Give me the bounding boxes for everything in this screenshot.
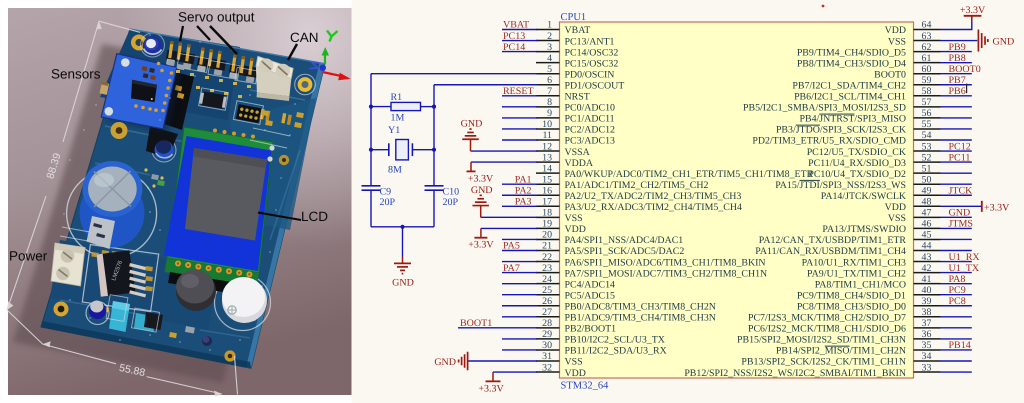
svg-text:PA7/SPI1_MOSI/ADC7/TIM3_CH2/TI: PA7/SPI1_MOSI/ADC7/TIM3_CH2/TIM8_CH1N [565,268,768,279]
svg-text:Servo output: Servo output [178,10,255,25]
wire net PB14 pin 35 [941,349,972,351]
pin 1 VBAT (left) [536,20,590,37]
pin 43 PA10 (right) [802,252,941,269]
svg-text:15: 15 [542,174,552,185]
svg-text:PC10/U4_TX/SDIO_D2: PC10/U4_TX/SDIO_D2 [808,169,906,180]
wire net PB8 pin 61 [941,62,972,64]
svg-text:43: 43 [922,252,932,263]
svg-text:GND: GND [461,118,483,129]
svg-text:18: 18 [542,208,552,219]
svg-text:PA4/SPI1_NSS/ADC4/DAC1: PA4/SPI1_NSS/ADC4/DAC1 [565,235,684,246]
svg-text:VDD: VDD [565,368,586,379]
wire stub pin 50 [941,183,972,185]
wire stub pin 56 [941,117,972,119]
svg-text:PC1/ADC11: PC1/ADC11 [565,114,615,125]
wire stub pin 57 [941,106,972,108]
svg-text:PA14/JTCK/SWCLK: PA14/JTCK/SWCLK [821,191,907,202]
svg-text:PA13/JTMS/SWDIO: PA13/JTMS/SWDIO [822,224,906,235]
svg-text:NRST: NRST [565,92,590,103]
svg-text:R1: R1 [391,92,403,103]
svg-text:PA3: PA3 [515,197,532,208]
pin 30 PB11 (left) [536,340,667,357]
svg-text:58: 58 [922,86,932,97]
pin 23 PA7 (left) [536,263,767,280]
svg-text:GND: GND [949,208,971,219]
wire pin 63 to GND [941,40,978,42]
pin 34 PB13 (right) [741,351,940,368]
junction dots [369,105,436,229]
svg-text:48: 48 [922,197,932,208]
wire XTAL1 lower segment [370,190,372,227]
schematic background [352,0,1024,403]
wire stub pin 29 [502,338,538,340]
power +3.3V symbol at pin 64 VDD [960,5,986,22]
power +3.3V symbol at pin 48 VDD [982,201,1010,214]
svg-text:62: 62 [922,42,932,53]
wire stub pin 27 [502,316,538,318]
svg-text:PB2/BOOT1: PB2/BOOT1 [565,324,617,335]
svg-text:64: 64 [922,20,932,31]
pin 59 PB7 (right) [792,75,940,92]
pin 27 PB1 (left) [536,307,716,324]
svg-text:PC4/ADC14: PC4/ADC14 [565,279,616,290]
svg-text:CPU1: CPU1 [561,12,587,23]
svg-text:40: 40 [922,285,932,296]
svg-text:20: 20 [542,230,552,241]
svg-text:PB6: PB6 [949,86,966,97]
pin 45 PA12 (right) [759,230,941,247]
svg-text:47: 47 [922,208,932,219]
pin 58 PB6 (right) [794,86,940,103]
svg-text:PA8: PA8 [949,274,966,285]
resistor R1 [371,92,434,123]
svg-text:34: 34 [922,351,932,362]
wire net PA7 pin 23 [502,272,538,274]
svg-text:39: 39 [922,296,932,307]
svg-text:VSS: VSS [888,36,906,47]
svg-text:8M: 8M [388,164,402,175]
svg-text:PC12/U5_TX/SDIO_CK: PC12/U5_TX/SDIO_CK [807,147,907,158]
svg-text:PB7/I2C1_SDA/TIM4_CH2: PB7/I2C1_SDA/TIM4_CH2 [792,80,906,91]
svg-text:PA5: PA5 [503,241,520,252]
svg-text:+3.3V: +3.3V [468,173,494,184]
pin 28 PB2 (left) [536,318,616,335]
wire net PC14 pin 3 [502,51,538,53]
svg-text:45: 45 [922,230,932,241]
pin 29 PB10 (left) [536,329,665,346]
wire XTAL2 lower segment [433,190,435,227]
svg-text:PA7: PA7 [503,263,520,274]
svg-text:Power: Power [9,249,48,264]
pin 51 PC10 (right) [808,163,940,180]
svg-text:+3.3V: +3.3V [984,203,1010,214]
wire XTAL2 right vertical [433,85,435,186]
wire net RESET pin 7 [502,95,538,97]
svg-text:PB5/I2C1_SMBA/SPI3_MOSI/I2S3_S: PB5/I2C1_SMBA/SPI3_MOSI/I2S3_SD [743,103,906,114]
pin 22 PA6 (left) [536,252,766,269]
svg-text:Y1: Y1 [388,125,400,136]
capacitor C10 [425,186,460,208]
wire net PC11 pin 52 [941,161,972,163]
svg-text:9: 9 [547,108,552,119]
svg-text:20P: 20P [380,197,396,208]
svg-text:PB10/I2C2_SCL/U3_TX: PB10/I2C2_SCL/U3_TX [565,335,665,346]
svg-text:25: 25 [542,285,552,296]
svg-text:BOOT0: BOOT0 [949,64,981,75]
pin 11 PC3 (left) [536,130,615,147]
svg-text:VSS: VSS [888,213,906,224]
wire pin 13 to +3.3V [471,161,538,163]
svg-text:3: 3 [547,42,552,53]
svg-text:LCD: LCD [301,209,328,224]
pin 50 PA15 (right) [775,174,940,191]
svg-text:26: 26 [542,296,552,307]
pin 38 PC7 (right) [748,307,941,324]
wire stub pin 8 [502,106,538,108]
pin 5 PD0 (left) [536,64,614,81]
pin 18 VSS (left) [536,208,583,225]
svg-text:PB14: PB14 [949,340,971,351]
svg-text:16: 16 [542,185,552,196]
power +3.3V symbol at pin 19 VDD [468,228,494,250]
svg-text:32: 32 [542,362,552,373]
svg-text:44: 44 [922,241,932,252]
pin 13 VDDA (left) [536,152,594,169]
wire stub pin 22 [502,261,538,263]
pin 25 PC5 (left) [536,285,615,302]
wire stub pin 51 [941,172,972,174]
text cursor artifact [966,84,967,94]
svg-text:5: 5 [547,64,552,75]
svg-text:38: 38 [922,307,932,318]
pin 36 PB15 (right) [737,329,941,346]
pin 37 PC6 (right) [748,318,941,335]
svg-text:37: 37 [922,318,932,329]
wire stub pin 36 [941,338,972,340]
svg-text:PC8: PC8 [949,296,966,307]
svg-text:4: 4 [547,53,552,64]
svg-text:PC15/OSC32: PC15/OSC32 [565,58,619,69]
pin 33 PB12 (right) [684,362,940,379]
svg-text:PB15/SPI2_MOSI/I2S2_SD/TIM1_CH: PB15/SPI2_MOSI/I2S2_SD/TIM1_CH3N [737,335,906,346]
svg-text:Sensors: Sensors [51,67,101,82]
crystal Y1 [371,125,434,175]
svg-text:PC3/ADC13: PC3/ADC13 [565,136,616,147]
svg-text:PA6/SPI1_MISO/ADC6/TIM3_CH1/TI: PA6/SPI1_MISO/ADC6/TIM3_CH1/TIM8_BKIN [565,257,766,268]
svg-text:PA2/U2_TX/ADC2/TIM2_CH3/TIM5_C: PA2/U2_TX/ADC2/TIM2_CH3/TIM5_CH3 [565,191,742,202]
svg-text:27: 27 [542,307,552,318]
svg-text:PD1/OSCOUT: PD1/OSCOUT [565,80,625,91]
wire stub pin 55 [941,128,972,130]
svg-text:11: 11 [542,130,552,141]
stray red dot [822,5,825,8]
svg-text:VBAT: VBAT [565,25,591,36]
svg-text:2: 2 [547,31,552,42]
wire stub pin 54 [941,139,972,141]
pin 9 PC1 (left) [536,108,615,125]
pin 2 PC13 (left) [536,31,614,48]
svg-text:VSS: VSS [565,357,583,368]
svg-text:PA3/U2_RX/ADC3/TIM2_CH4/TIM5_C: PA3/U2_RX/ADC3/TIM2_CH4/TIM5_CH4 [565,202,742,213]
pin 3 PC14 (left) [536,42,618,59]
svg-text:41: 41 [922,274,932,285]
pin 44 PA11 (right) [755,241,940,258]
svg-text:PC11: PC11 [949,152,971,163]
svg-text:RESET: RESET [503,86,534,97]
svg-text:PB11/I2C2_SDA/U3_RX: PB11/I2C2_SDA/U3_RX [565,346,667,357]
wire stub pin 37 [941,327,972,329]
svg-text:PB0/ADC8/TIM3_CH3/TIM8_CH2N: PB0/ADC8/TIM3_CH3/TIM8_CH2N [565,301,716,312]
power +3.3V symbol at pin 13 VDDA [467,162,494,184]
pin 47 VSS (right) [888,208,941,225]
svg-text:VDD: VDD [565,224,586,235]
wire stub pin 11 [502,139,538,141]
svg-text:63: 63 [922,31,932,42]
pin 48 VDD (right) [885,197,941,214]
wire net PC13 pin 2 [502,40,538,42]
wire net BOOT0 pin 60 [941,73,972,75]
pin 10 PC2 (left) [536,119,615,135]
svg-text:52: 52 [922,152,932,163]
wire net GND pin 47 [941,216,972,218]
svg-text:PB9: PB9 [949,42,966,53]
svg-text:PA5/SPI1_SCK/ADC5/DAC2: PA5/SPI1_SCK/ADC5/DAC2 [565,246,685,257]
svg-text:29: 29 [542,329,552,340]
svg-text:21: 21 [542,241,552,252]
wire stub pin 30 [502,349,538,351]
svg-text:60: 60 [922,64,932,75]
pin 15 PA1 (left) [536,174,708,191]
svg-text:PB3/JTDO/SPI3_SCK/I2S3_CK: PB3/JTDO/SPI3_SCK/I2S3_CK [776,125,907,136]
power +3.3V symbol at pin 32 VDD [478,372,504,394]
svg-text:PB8: PB8 [949,53,966,64]
svg-text:31: 31 [542,351,552,362]
svg-text:U1_TX: U1_TX [949,263,980,274]
svg-text:14: 14 [542,163,552,174]
svg-text:+3.3V: +3.3V [478,383,504,394]
pin 64 VDD (right) [885,20,941,37]
wire net PC9 pin 40 [941,294,972,296]
wire pin 19 to +3.3V [481,227,538,229]
pin 62 PB9 (right) [797,42,941,59]
svg-text:22: 22 [542,252,552,263]
wire net BOOT1 pin 28 [458,327,538,329]
svg-text:PB9/TIM4_CH4/SDIO_D5: PB9/TIM4_CH4/SDIO_D5 [797,47,906,58]
svg-text:PC2/ADC12: PC2/ADC12 [565,125,616,136]
svg-text:GND: GND [471,185,493,196]
pin 39 PC8 (right) [797,296,941,313]
wire pin 31 to GND [468,360,538,362]
svg-text:VDD: VDD [885,25,906,36]
pin 20 PA4 (left) [536,230,683,247]
svg-text:VDD: VDD [885,202,906,213]
pin 40 PC9 (right) [797,285,941,302]
wire pin 6 to crystal net XTAL2 [434,84,538,86]
svg-text:+3.3V: +3.3V [468,240,494,251]
pin 60 BOOT0 (right) [874,64,940,81]
svg-text:PA15/JTDI/SPI3_NSS/I2S3_WS: PA15/JTDI/SPI3_NSS/I2S3_WS [775,180,906,191]
wire stub pin 38 [941,316,972,318]
pin 4 PC15 (left) [536,53,618,70]
svg-text:PD0/OSCIN: PD0/OSCIN [565,69,615,80]
svg-text:PB14/SPI2_MISO/TIM1_CH2N: PB14/SPI2_MISO/TIM1_CH2N [776,346,906,357]
pin 8 PC0 (left) [536,97,615,114]
power GND symbol at pin 12 VSSA [461,118,483,151]
svg-text:55: 55 [922,119,932,130]
svg-text:PA9/U1_TX/TIM1_CH2: PA9/U1_TX/TIM1_CH2 [807,268,906,279]
svg-text:7: 7 [547,86,552,97]
svg-text:13: 13 [542,152,552,163]
wire net PA5 pin 21 [502,250,538,252]
svg-text:PC8/TIM8_CH3/SDIO_D0: PC8/TIM8_CH3/SDIO_D0 [797,301,906,312]
svg-text:PB8/TIM4_CH3/SDIO_D4: PB8/TIM4_CH3/SDIO_D4 [797,58,906,69]
wire net PA2 pin 16 [502,194,538,196]
svg-text:46: 46 [922,219,932,230]
pin 53 PC12 (right) [807,141,941,158]
svg-text:PC0/ADC10: PC0/ADC10 [565,103,616,114]
power GND symbol at pin 31 VSS [434,352,467,371]
pin 54 PD2 (right) [752,130,940,147]
svg-text:35: 35 [922,340,932,351]
power GND symbol at pin 63 VSS [978,30,1014,52]
svg-text:GND: GND [993,36,1015,47]
svg-text:57: 57 [922,97,932,108]
svg-text:PA1/ADC1/TIM2_CH2/TIM5_CH2: PA1/ADC1/TIM2_CH2/TIM5_CH2 [565,180,709,191]
svg-text:PC13: PC13 [503,31,525,42]
svg-text:PA8/TIM1_CH1/MCO: PA8/TIM1_CH1/MCO [815,279,906,290]
wire stub pin 33 [941,371,972,373]
pin 7 NRST (left) [536,86,590,103]
svg-text:PC14/OSC32: PC14/OSC32 [565,47,619,58]
svg-text:23: 23 [542,263,552,274]
wire bottom joining C9 C10 [371,226,434,228]
pin 31 VSS (left) [536,351,583,368]
wire stub pin 34 [941,360,972,362]
pin 21 PA5 (left) [536,241,684,258]
svg-text:30: 30 [542,340,552,351]
svg-text:49: 49 [922,185,932,196]
svg-text:PA0/WKUP/ADC0/TIM2_CH1_ETR/TIM: PA0/WKUP/ADC0/TIM2_CH1_ETR/TIM5_CH1/TIM8… [565,169,814,180]
pin 12 VSSA (left) [536,141,591,158]
svg-text:PA2: PA2 [515,185,532,196]
pin 6 PD1 (left) [536,75,624,92]
pin 35 PB14 (right) [776,340,941,357]
svg-text:PC6/I2S2_MCK/TIM8_CH1/SDIO_D6: PC6/I2S2_MCK/TIM8_CH1/SDIO_D6 [748,324,906,335]
svg-text:PB6/I2C1_SCL/TIM4_CH1: PB6/I2C1_SCL/TIM4_CH1 [794,92,906,103]
svg-text:U1_RX: U1_RX [949,252,981,263]
wire stub pin 45 [941,238,972,240]
svg-text:BOOT1: BOOT1 [460,318,492,329]
svg-text:VDDA: VDDA [565,158,594,169]
wire net PC12 pin 53 [941,150,972,152]
wire pin 32 to +3.3V [493,371,538,373]
svg-text:33: 33 [922,362,932,373]
svg-text:VBAT: VBAT [503,20,529,31]
IC U1 CPU1 STM32_64 component body [560,22,914,378]
wire net PA8 pin 41 [941,283,972,285]
wire net PA3 pin 17 [502,205,538,207]
svg-text:PB13/SPI2_SCK/I2S2_CK/TIM1_CH1: PB13/SPI2_SCK/I2S2_CK/TIM1_CH1N [741,357,906,368]
svg-text:PB7: PB7 [949,75,966,86]
svg-text:20P: 20P [443,197,459,208]
wire pin 12 to GND [471,150,538,152]
pin 46 PA13 (right) [822,219,940,236]
wire stub pin 10 [502,128,538,130]
wire net PC8 pin 39 [941,305,972,307]
pin 17 PA3 (left) [536,197,742,214]
svg-text:PC13/ANT1: PC13/ANT1 [565,36,615,47]
svg-text:1M: 1M [391,112,405,123]
capacitor C9 [362,186,396,208]
svg-text:19: 19 [542,219,552,230]
wire pin 64 to +3.3V [941,16,972,30]
power GND symbol at pin 18 VSS [471,185,493,218]
svg-text:PA1: PA1 [515,174,532,185]
pin 52 PC11 (right) [808,152,940,169]
svg-text:50: 50 [922,174,932,185]
svg-text:PB1/ADC9/TIM3_CH4/TIM8_CH3N: PB1/ADC9/TIM3_CH4/TIM8_CH3N [565,313,716,324]
svg-text:PB4/JNTRST/SPI3_MISO: PB4/JNTRST/SPI3_MISO [800,114,906,125]
svg-text:PC5/ADC15: PC5/ADC15 [565,290,616,301]
wire pin 18 to GND [481,216,538,218]
svg-text:36: 36 [922,329,932,340]
wire pin 5 to crystal net XTAL1 [371,73,538,75]
svg-text:GND: GND [434,357,456,368]
svg-text:42: 42 [922,263,932,274]
svg-text:+3.3V: +3.3V [960,5,986,16]
pin 19 VDD (left) [536,219,586,236]
svg-text:56: 56 [922,108,932,119]
svg-text:54: 54 [922,130,932,141]
svg-text:VSS: VSS [565,213,583,224]
wire pin 48 to +3.3V [941,205,982,207]
svg-text:24: 24 [542,274,552,285]
wire net PB9 pin 62 [941,51,972,53]
pin 56 PB4 (right) [800,108,941,125]
svg-text:PC12: PC12 [949,141,971,152]
svg-text:PB12/SPI2_NSS/I2S2_WS/I2C2_SMB: PB12/SPI2_NSS/I2S2_WS/I2C2_SMBAI/TIM1_BK… [684,368,906,379]
pin 55 PB3 (right) [776,119,941,135]
svg-text:PA12/CAN_TX/USBDP/TIM1_ETR: PA12/CAN_TX/USBDP/TIM1_ETR [759,235,907,246]
wire XTAL1 left vertical [370,74,372,186]
pin 26 PB0 (left) [536,296,716,313]
svg-text:51: 51 [922,163,932,174]
wire net JTMS pin 46 [941,227,972,229]
wire net U1_TX pin 42 [941,272,972,274]
svg-text:1: 1 [547,20,552,31]
wire net PA1 pin 15 [502,183,538,185]
pin 14 PA0 (left) [536,163,814,180]
wire stub pin 9 [502,117,538,119]
svg-text:10: 10 [542,119,552,130]
svg-text:61: 61 [922,53,932,64]
wire net JTCK pin 49 [941,194,972,196]
svg-text:17: 17 [542,197,552,208]
pin 32 VDD (left) [536,362,586,379]
svg-text:PC7/I2S3_MCK/TIM8_CH2/SDIO_D7: PC7/I2S3_MCK/TIM8_CH2/SDIO_D7 [748,313,906,324]
wire stub pin 20 [502,238,538,240]
svg-text:STM32_64: STM32_64 [561,381,610,392]
wire net PB6 pin 58 [941,95,972,97]
svg-text:PC9/TIM8_CH4/SDIO_D1: PC9/TIM8_CH4/SDIO_D1 [797,290,906,301]
svg-text:PC14: PC14 [503,42,525,53]
wire stub pin 26 [502,305,538,307]
svg-text:6: 6 [547,75,552,86]
pin 41 PA8 (right) [815,274,941,291]
pin 24 PC4 (left) [536,274,615,291]
svg-text:VSSA: VSSA [565,147,591,158]
wire to GND [402,227,404,257]
